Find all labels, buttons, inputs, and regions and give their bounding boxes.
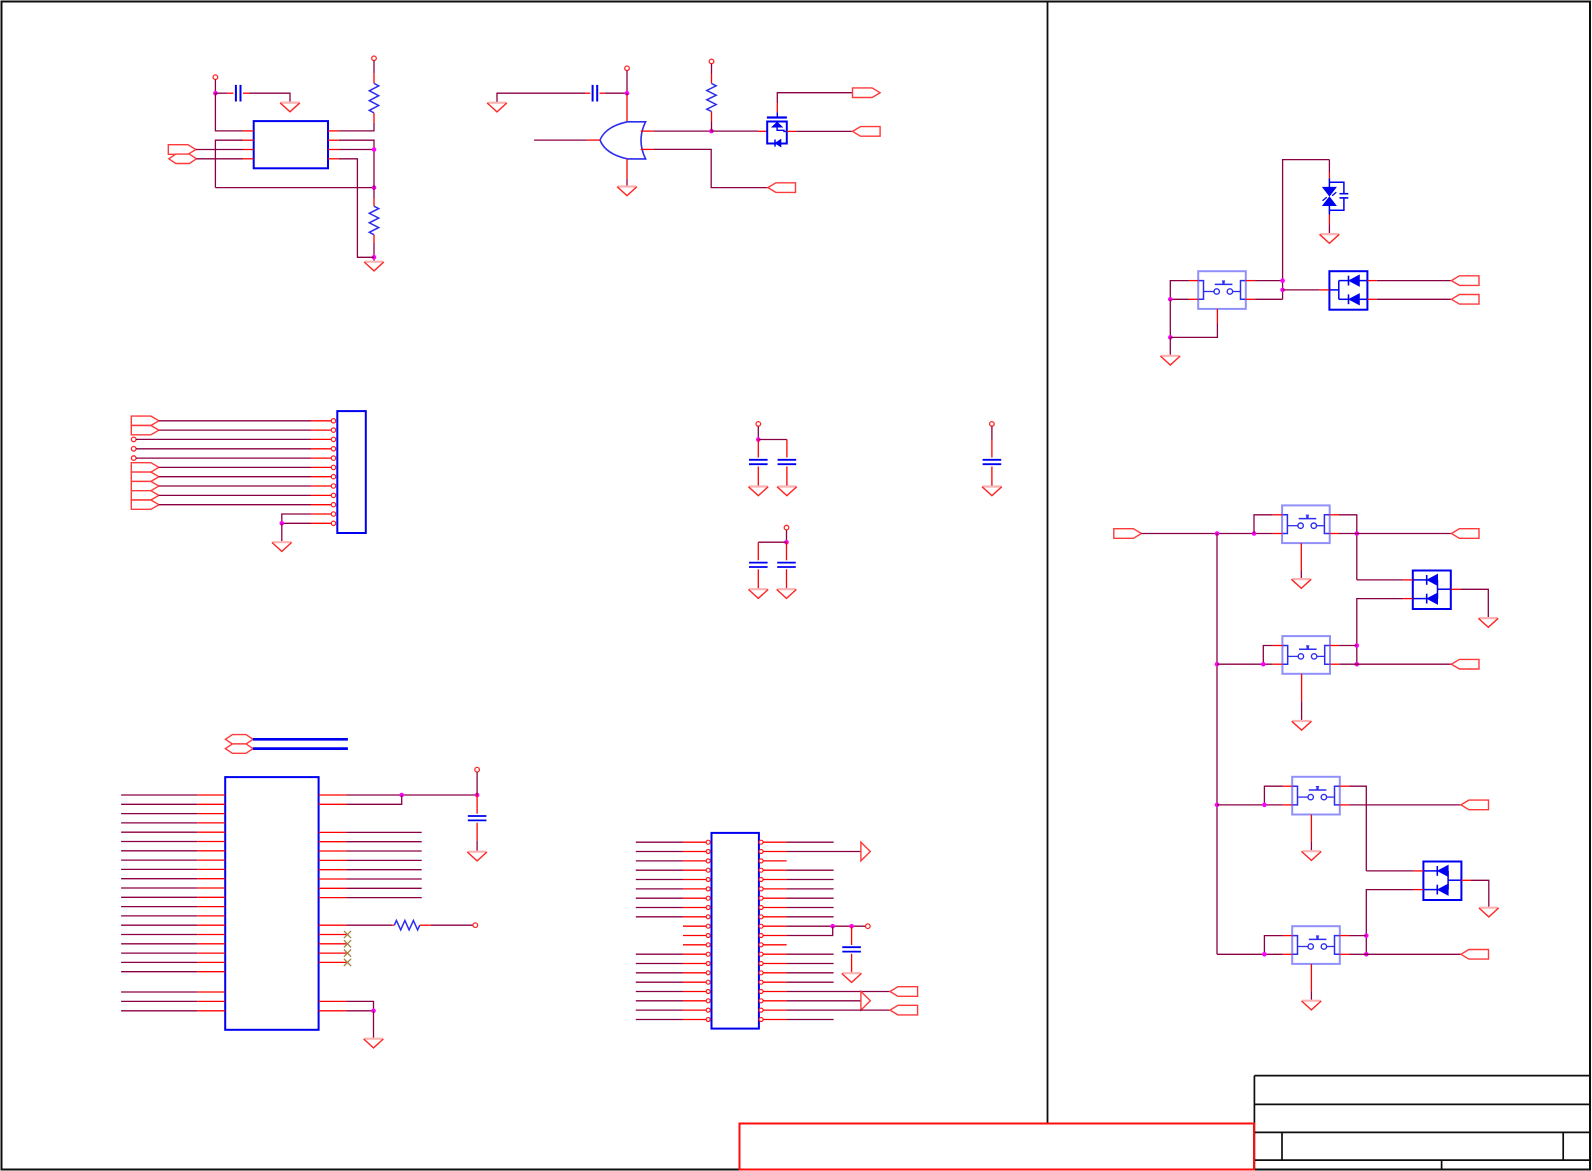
pin 4 <box>243 158 254 160</box>
wire <box>1169 299 1171 337</box>
pin <box>1273 533 1282 535</box>
pin <box>1330 533 1339 535</box>
wire <box>636 981 683 983</box>
pushbutton switch SW5 <box>1292 926 1340 964</box>
pin <box>1328 173 1330 179</box>
ground <box>1479 908 1499 917</box>
pin <box>711 74 713 84</box>
pin L13 <box>197 906 225 908</box>
wire <box>636 860 683 862</box>
wire <box>121 1000 197 1002</box>
junction <box>1262 952 1267 957</box>
wire <box>121 831 197 833</box>
wire <box>346 869 421 871</box>
pin <box>851 954 853 972</box>
wire <box>787 953 834 955</box>
pin L15 <box>197 924 225 926</box>
junction <box>1215 803 1220 808</box>
junction <box>1355 662 1360 667</box>
junction <box>1280 288 1285 293</box>
junction <box>280 521 285 526</box>
pin <box>476 823 478 841</box>
diode array D3 <box>1413 571 1451 610</box>
wire <box>1310 991 1312 1000</box>
pin R15 (no connect) <box>319 959 352 966</box>
port (flag) <box>131 481 159 490</box>
junction <box>1168 297 1173 302</box>
ground <box>1302 1001 1322 1010</box>
port (flag) <box>131 463 159 472</box>
junction <box>1215 662 1220 667</box>
ground <box>777 487 797 496</box>
wire <box>796 130 852 132</box>
wire <box>636 841 683 843</box>
pin <box>1320 289 1330 291</box>
wire <box>991 426 993 439</box>
net stub <box>473 923 478 928</box>
wire <box>1217 804 1283 806</box>
pin R13 (no connect) <box>319 940 352 947</box>
wire <box>196 149 243 151</box>
resistor R1 <box>369 83 378 113</box>
wire <box>346 794 477 796</box>
wire <box>636 851 683 853</box>
pin 5 <box>311 456 336 460</box>
wire <box>636 1000 683 1002</box>
wire <box>121 896 197 898</box>
wire <box>346 1010 373 1012</box>
pin L19 <box>683 1008 710 1012</box>
wire <box>636 963 683 965</box>
pin <box>1273 663 1283 665</box>
pin L20 <box>683 1018 710 1022</box>
wire <box>373 243 375 261</box>
wire <box>626 71 628 94</box>
wire <box>250 93 291 102</box>
wire <box>1301 701 1303 720</box>
pin R3 <box>759 859 787 863</box>
pin <box>1273 514 1282 516</box>
wire <box>757 485 759 486</box>
pin <box>786 440 788 458</box>
pin L16 <box>683 980 710 984</box>
port <box>1451 529 1479 539</box>
wire <box>1255 280 1283 282</box>
pin <box>585 92 590 94</box>
pin L17 <box>683 990 710 994</box>
port (bidirectional) <box>169 154 197 163</box>
junction <box>1252 531 1257 536</box>
wire <box>1349 953 1461 955</box>
pin <box>1367 280 1376 282</box>
pin <box>1300 543 1302 570</box>
port <box>890 1005 918 1015</box>
wire <box>1349 786 1366 871</box>
wire <box>787 981 834 983</box>
junction <box>1215 531 1220 536</box>
resistor R2 <box>369 206 378 235</box>
wire <box>786 587 788 588</box>
pin <box>1367 298 1376 300</box>
wire <box>346 897 421 899</box>
pin R20 <box>759 1018 787 1022</box>
junction <box>1262 803 1267 808</box>
wire <box>636 1009 683 1011</box>
wire <box>1460 589 1488 617</box>
wire <box>121 943 197 945</box>
pin L6 <box>197 841 225 843</box>
pin R10 <box>759 924 787 928</box>
pin L23 <box>197 1010 225 1012</box>
wire <box>787 916 834 918</box>
ground <box>982 487 1002 496</box>
wire <box>787 879 834 881</box>
gate pin <box>776 113 778 118</box>
wire <box>121 952 197 954</box>
wire <box>121 850 197 852</box>
pin 4 <box>311 447 336 451</box>
capacitor C2 <box>593 85 598 102</box>
main bus wire <box>1216 534 1218 955</box>
wire <box>1357 579 1403 581</box>
net stub <box>131 447 136 452</box>
open terminal <box>213 75 218 80</box>
capacitor C6 <box>777 563 796 567</box>
wire <box>159 466 311 468</box>
port <box>853 88 881 98</box>
pin R8 <box>759 906 787 910</box>
wire <box>476 772 478 795</box>
junction <box>372 147 377 152</box>
wire <box>636 953 683 955</box>
ground <box>272 542 292 551</box>
pin <box>786 569 788 587</box>
title block <box>1254 1076 1590 1170</box>
wire <box>787 869 834 871</box>
pin <box>1340 785 1349 787</box>
pin R6 <box>759 887 787 891</box>
pin <box>786 467 788 485</box>
wire <box>1169 337 1171 355</box>
pin R15 <box>759 971 787 975</box>
wire <box>636 972 683 974</box>
ground <box>748 589 768 598</box>
ground <box>1291 579 1311 588</box>
wire <box>1328 160 1330 173</box>
wire <box>121 794 197 796</box>
pin 7 <box>311 475 336 479</box>
ground <box>777 589 797 598</box>
pin L6 <box>683 887 710 891</box>
pin L14 <box>683 962 710 966</box>
wire <box>605 92 627 94</box>
pin R17 <box>759 990 787 994</box>
pin R1 <box>319 794 347 796</box>
wire <box>373 61 375 74</box>
pin L13 <box>683 952 710 956</box>
wire <box>1339 645 1357 647</box>
pin 3 <box>311 437 336 441</box>
port <box>1461 950 1489 960</box>
wire <box>196 158 243 160</box>
wire <box>215 140 243 187</box>
wire <box>121 906 197 908</box>
wire <box>787 897 834 899</box>
pin L10 <box>683 924 710 928</box>
pin <box>991 467 993 485</box>
junction <box>1355 531 1360 536</box>
wire <box>121 803 197 805</box>
pin <box>1330 663 1339 665</box>
wire <box>339 159 374 257</box>
capacitor C5 <box>749 563 768 567</box>
pin <box>1403 598 1413 600</box>
input pin <box>641 130 654 132</box>
port <box>1451 295 1479 305</box>
wire <box>636 888 683 890</box>
pin <box>227 92 233 94</box>
node VCC stub B1 <box>625 66 630 71</box>
junction <box>1280 278 1285 283</box>
pin L3 <box>197 813 225 815</box>
pin 8 <box>328 158 339 160</box>
node VCC stub B2 <box>709 59 714 64</box>
resistor R4 <box>394 921 419 930</box>
junction <box>1364 933 1369 938</box>
pin L22 <box>197 1000 225 1002</box>
wire <box>654 130 712 132</box>
pin <box>1283 804 1292 806</box>
port (triangle) <box>861 842 870 861</box>
pin L9 <box>197 868 225 870</box>
pin R4 <box>759 868 787 872</box>
wire <box>159 420 311 422</box>
pin R13 <box>759 952 787 956</box>
pin <box>1189 298 1198 300</box>
pin <box>1414 870 1424 872</box>
pin L5 <box>197 831 225 833</box>
pin L7 <box>683 896 710 900</box>
pin R19 <box>759 1008 787 1012</box>
wire <box>1264 936 1283 955</box>
pin L2 <box>683 850 710 854</box>
pin R3 <box>319 831 347 833</box>
pin L5 <box>683 878 710 882</box>
junction <box>830 924 835 929</box>
capacitor C8 <box>468 816 487 820</box>
wire <box>1366 890 1414 955</box>
port (flag) <box>131 426 159 435</box>
junction <box>372 255 377 260</box>
wire <box>626 93 628 95</box>
bus <box>253 747 348 750</box>
pin L10 <box>197 878 225 880</box>
wire <box>711 130 758 132</box>
wire <box>121 991 197 993</box>
port (flag) <box>131 472 159 481</box>
pin <box>758 130 767 132</box>
pin R14 (no connect) <box>319 950 352 957</box>
wire <box>787 851 861 853</box>
pin <box>1246 280 1255 282</box>
wire <box>1263 646 1273 665</box>
wire <box>346 887 421 889</box>
resistor R3 <box>707 84 716 112</box>
wire <box>339 140 374 198</box>
pin <box>476 795 478 814</box>
pin <box>1403 579 1413 581</box>
capacitor C3 <box>749 460 768 464</box>
ground <box>280 103 300 112</box>
pin R12 (no connect) <box>319 931 352 938</box>
wire <box>346 1001 373 1010</box>
diode array D2 <box>1329 271 1367 310</box>
wire <box>136 438 311 440</box>
pin R4 <box>319 841 347 843</box>
wire <box>758 541 786 543</box>
pin <box>757 467 759 485</box>
wire <box>1349 935 1366 937</box>
pin L16 <box>197 934 225 936</box>
junction <box>1364 952 1369 957</box>
pin <box>373 235 375 243</box>
wire <box>786 530 788 542</box>
pin R2 <box>319 803 347 805</box>
pin L8 <box>197 859 225 861</box>
ground pin <box>626 159 628 179</box>
pushbutton switch SW4 <box>1292 777 1340 815</box>
pin L19 <box>197 961 225 963</box>
wire <box>497 93 585 102</box>
wire <box>1357 599 1403 665</box>
junction <box>371 1009 376 1014</box>
wire <box>786 485 788 486</box>
pin <box>373 113 375 123</box>
pin R16 <box>759 980 787 984</box>
pin R7 <box>319 869 347 871</box>
pin <box>1330 514 1339 516</box>
wire <box>121 841 197 843</box>
pin <box>1414 889 1424 891</box>
capacitor C1 <box>236 85 241 102</box>
wire <box>159 476 311 478</box>
ground <box>1302 851 1322 860</box>
pin <box>373 73 375 83</box>
wire <box>654 149 768 187</box>
ground <box>748 487 768 496</box>
wire <box>215 93 243 131</box>
wire <box>787 1019 834 1021</box>
pin 1 <box>243 130 254 132</box>
net stub <box>131 437 136 442</box>
wire <box>1170 298 1189 300</box>
pin 2 <box>311 428 336 432</box>
node VCC stub E1 <box>990 422 995 427</box>
wire <box>159 504 311 506</box>
pin R11 <box>319 924 347 926</box>
pin <box>392 924 394 926</box>
wire <box>214 80 216 94</box>
port (triangle) <box>861 991 870 1010</box>
wire <box>1141 533 1272 535</box>
pin <box>1310 815 1312 842</box>
junction <box>1168 335 1173 340</box>
node VCC stub A2 <box>372 56 377 61</box>
wire <box>626 179 628 186</box>
wire <box>636 907 683 909</box>
wire <box>121 859 197 861</box>
wire <box>757 426 759 439</box>
net stub <box>131 456 136 461</box>
pin 2 <box>243 139 254 141</box>
bus <box>253 738 348 741</box>
pin L11 <box>683 934 710 938</box>
pin <box>1189 280 1198 282</box>
wire <box>282 522 311 524</box>
pin L14 <box>197 915 225 917</box>
wire <box>1170 324 1217 338</box>
wire <box>1377 280 1452 282</box>
pin R17 <box>319 1010 347 1012</box>
pin <box>851 926 853 945</box>
pin L9 <box>683 915 710 919</box>
bus port <box>225 744 253 753</box>
pin L18 <box>683 999 710 1003</box>
wire <box>711 122 713 132</box>
output pin <box>587 139 600 141</box>
IC U4 <box>712 833 759 1029</box>
wire <box>346 924 392 926</box>
wire <box>121 924 197 926</box>
ground <box>467 852 487 861</box>
wire <box>1339 663 1451 665</box>
wire <box>787 888 834 890</box>
wire <box>787 925 866 927</box>
pushbutton switch SW2 <box>1282 505 1330 543</box>
pin 6 <box>311 465 336 469</box>
ground <box>1478 618 1498 627</box>
pin 9 <box>311 493 336 497</box>
wire <box>1283 289 1320 291</box>
pin <box>1310 964 1312 991</box>
pin <box>1451 588 1461 590</box>
pin R9 <box>319 887 347 889</box>
capacitor C9 <box>842 947 861 951</box>
wire <box>339 149 374 151</box>
wire <box>159 485 311 487</box>
wire <box>339 123 374 131</box>
wire <box>1217 953 1283 955</box>
pin <box>1461 879 1471 881</box>
pin <box>757 569 759 587</box>
capacitor C4 <box>778 460 797 464</box>
wire <box>121 822 197 824</box>
pin 10 <box>311 503 336 507</box>
wire <box>787 972 834 974</box>
wire <box>121 878 197 880</box>
pin 12 <box>311 521 336 525</box>
pin R9 <box>759 915 787 919</box>
pin <box>991 440 993 458</box>
wire <box>991 485 993 486</box>
wire <box>787 1000 861 1002</box>
input pin <box>641 148 654 150</box>
pin L12 <box>197 896 225 898</box>
transistor Q1 (P-MOSFET) <box>767 118 787 147</box>
wire <box>281 523 283 541</box>
wire <box>346 831 421 833</box>
pin R5 <box>759 878 787 882</box>
